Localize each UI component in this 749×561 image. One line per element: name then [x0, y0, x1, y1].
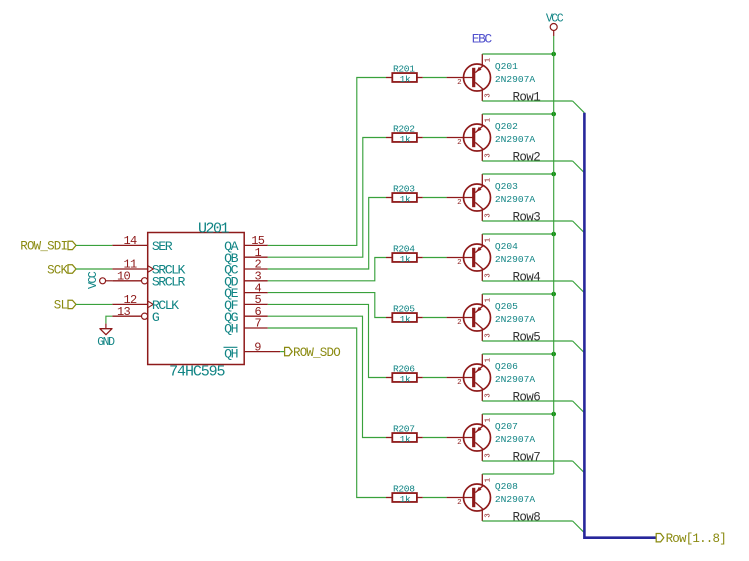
svg-text:1: 1 — [485, 477, 493, 482]
svg-text:2N2907A: 2N2907A — [495, 134, 536, 145]
wire R207 to Q207 base — [423, 437, 447, 439]
U201 pin 7 QH — [224, 317, 268, 337]
hierarchical label ROW_SDI — [20, 240, 76, 254]
U201 pin 10 SRCLR — [112, 270, 185, 290]
svg-text:Q202: Q202 — [495, 121, 518, 132]
hierarchical label ROW_SDO — [285, 346, 341, 360]
U201 pin 9 QH' (inverted serial out) — [224, 340, 281, 361]
svg-text:QH: QH — [224, 322, 237, 337]
svg-text:1: 1 — [485, 117, 493, 122]
svg-text:Row5: Row5 — [513, 330, 541, 344]
svg-text:2: 2 — [457, 499, 462, 507]
transistor Q207 2N2907A (PNP) — [447, 414, 536, 461]
wire R205 to Q205 base — [423, 317, 447, 319]
transistor Q201 2N2907A (PNP) — [447, 54, 536, 101]
svg-text:Q204: Q204 — [495, 241, 518, 252]
U201 pin 5 QF — [224, 293, 268, 313]
svg-text:GND: GND — [97, 336, 115, 349]
svg-text:2: 2 — [457, 79, 462, 87]
hierarchical label SL — [54, 299, 76, 313]
svg-text:Row1: Row1 — [513, 90, 541, 104]
svg-text:Row7: Row7 — [513, 450, 541, 464]
junction VCC rail / Q204 emitter — [551, 232, 556, 237]
wire VCC rail — [553, 36, 555, 474]
svg-text:14: 14 — [123, 234, 137, 248]
resistor R202 1k — [386, 123, 423, 145]
wire R206 to Q206 base — [423, 377, 447, 379]
resistor R207 1k — [386, 423, 423, 445]
wire SL to pin 12 — [76, 303, 112, 305]
svg-text:1: 1 — [485, 237, 493, 242]
bus entry Row8 — [573, 521, 585, 533]
junction VCC rail / Q203 emitter — [551, 172, 556, 177]
svg-text:2: 2 — [457, 379, 462, 387]
wire QD pin to R204 feed — [268, 258, 386, 281]
junction VCC rail / Q205 emitter — [551, 292, 556, 297]
svg-text:2N2907A: 2N2907A — [495, 254, 536, 265]
svg-text:3: 3 — [485, 93, 493, 98]
bus entry Row4 — [573, 281, 585, 293]
svg-text:Row4: Row4 — [513, 270, 541, 284]
svg-text:2N2907A: 2N2907A — [495, 74, 536, 85]
wire pin 9 to ROW_SDO — [280, 351, 285, 353]
bus entry Row5 — [573, 341, 585, 353]
svg-text:SL: SL — [54, 299, 68, 313]
svg-text:VCC: VCC — [87, 271, 100, 289]
bus entry Row2 — [573, 161, 585, 173]
svg-text:R208: R208 — [393, 483, 415, 494]
svg-text:ROW_SDI: ROW_SDI — [20, 240, 67, 254]
wire Q203 emitter to VCC rail — [482, 173, 553, 175]
svg-text:7: 7 — [254, 317, 261, 331]
svg-text:2N2907A: 2N2907A — [495, 314, 536, 325]
transistor Q205 2N2907A (PNP) — [447, 294, 536, 341]
wire Row7 net — [482, 460, 572, 462]
wire R202 to Q202 base — [423, 137, 447, 139]
svg-text:2: 2 — [457, 199, 462, 207]
svg-text:1k: 1k — [400, 194, 411, 205]
wire Q202 emitter to VCC rail — [482, 113, 553, 115]
U201 pin 2 QC — [224, 258, 268, 278]
svg-text:9: 9 — [254, 340, 261, 354]
svg-text:2: 2 — [457, 139, 462, 147]
svg-text:1k: 1k — [400, 314, 411, 325]
svg-text:R203: R203 — [393, 183, 415, 194]
power symbol VCC (top) — [546, 13, 564, 36]
U201 pin 14 SER — [112, 234, 172, 254]
transistor Q208 2N2907A (PNP) — [447, 474, 536, 521]
wire Q207 emitter to VCC rail — [482, 413, 553, 415]
wire Row8 net — [482, 520, 572, 522]
wire QF pin to R206 feed — [268, 304, 386, 377]
wire QB pin to R202 feed — [268, 138, 386, 258]
U201 pin 4 QE — [224, 281, 268, 301]
svg-text:2N2907A: 2N2907A — [495, 494, 536, 505]
wire R204 to Q204 base — [423, 257, 447, 259]
svg-text:3: 3 — [485, 393, 493, 398]
svg-text:3: 3 — [485, 453, 493, 458]
resistor R206 1k — [386, 363, 423, 385]
svg-text:Q206: Q206 — [495, 361, 518, 372]
svg-text:1: 1 — [485, 357, 493, 362]
wire R208 to Q208 base — [423, 497, 447, 499]
resistor R203 1k — [386, 183, 423, 205]
wire SCK to pin 11 — [76, 268, 112, 270]
svg-text:R202: R202 — [393, 123, 415, 134]
svg-text:1k: 1k — [400, 494, 411, 505]
svg-text:R204: R204 — [393, 243, 415, 254]
U201 pin 3 QD — [224, 270, 268, 290]
resistor R208 1k — [386, 483, 423, 505]
wire Q205 emitter to VCC rail — [482, 293, 553, 295]
resistor R205 1k — [386, 303, 423, 325]
wire QC pin to R203 feed — [268, 198, 386, 270]
svg-text:2N2907A: 2N2907A — [495, 194, 536, 205]
svg-text:74HC595: 74HC595 — [169, 364, 225, 381]
bus Row[1..8] — [584, 113, 656, 538]
resistor R204 1k — [386, 243, 423, 265]
U201 pin 6 QG — [224, 305, 268, 325]
svg-text:2N2907A: 2N2907A — [495, 434, 536, 445]
wire Row1 net — [482, 100, 572, 102]
U201 pin 11 SRCLK — [112, 258, 185, 278]
junction VCC rail / Q207 emitter — [551, 412, 556, 417]
svg-text:10: 10 — [117, 270, 131, 284]
U201 pin 15 QA — [224, 234, 268, 254]
wire ROW_SDI to pin 14 — [76, 244, 112, 246]
transistor Q206 2N2907A (PNP) — [447, 354, 536, 401]
resistor R201 1k — [386, 63, 423, 85]
wire QE pin to R205 feed — [268, 293, 386, 318]
svg-text:3: 3 — [485, 513, 493, 518]
svg-text:Q208: Q208 — [495, 481, 518, 492]
svg-text:Row2: Row2 — [513, 150, 541, 164]
transistor Q202 2N2907A (PNP) — [447, 114, 536, 161]
wire Q206 emitter to VCC rail — [482, 353, 553, 355]
wire Row5 net — [482, 340, 572, 342]
wire Row2 net — [482, 160, 572, 162]
svg-text:R206: R206 — [393, 363, 415, 374]
svg-text:1k: 1k — [400, 434, 411, 445]
junction VCC rail / Q206 emitter — [551, 352, 556, 357]
junction VCC rail / Q201 emitter — [551, 52, 556, 57]
svg-text:ROW_SDO: ROW_SDO — [293, 346, 340, 360]
wire Q204 emitter to VCC rail — [482, 233, 553, 235]
svg-text:Row8: Row8 — [513, 510, 541, 524]
svg-text:U201: U201 — [198, 220, 230, 237]
wire Q201 emitter to VCC rail — [482, 53, 553, 55]
svg-text:1k: 1k — [400, 134, 411, 145]
bus entry Row1 — [573, 101, 585, 113]
svg-text:SER: SER — [152, 239, 173, 254]
U201 pin 12 RCLK — [112, 293, 179, 313]
svg-text:R205: R205 — [393, 303, 415, 314]
svg-text:Q205: Q205 — [495, 301, 518, 312]
svg-text:Row[1..8]: Row[1..8] — [666, 532, 726, 546]
wire Row3 net — [482, 220, 572, 222]
bus entry Row7 — [573, 461, 585, 473]
svg-text:1: 1 — [485, 57, 493, 62]
U201 pin 13 G — [112, 305, 160, 325]
svg-text:1: 1 — [485, 297, 493, 302]
hierarchical label Row[1..8] — [656, 532, 726, 546]
transistor Q203 2N2907A (PNP) — [447, 174, 536, 221]
svg-text:1k: 1k — [400, 374, 411, 385]
svg-text:3: 3 — [485, 213, 493, 218]
svg-text:13: 13 — [117, 305, 131, 319]
svg-text:Q207: Q207 — [495, 421, 518, 432]
wire Row6 net — [482, 400, 572, 402]
power symbol VCC (at SRCLR) — [87, 271, 113, 289]
svg-text:2N2907A: 2N2907A — [495, 374, 536, 385]
svg-text:3: 3 — [485, 273, 493, 278]
wire QA pin to R201 feed — [268, 78, 386, 246]
svg-text:1: 1 — [485, 417, 493, 422]
svg-text:1k: 1k — [400, 74, 411, 85]
svg-text:Q201: Q201 — [495, 61, 518, 72]
svg-text:Row6: Row6 — [513, 390, 541, 404]
svg-text:QH: QH — [224, 346, 237, 361]
wire R201 to Q201 base — [423, 77, 447, 79]
ground GND — [97, 324, 115, 350]
svg-text:EBC: EBC — [472, 32, 493, 47]
wire R203 to Q203 base — [423, 197, 447, 199]
wire QH pin to R208 feed — [268, 328, 386, 498]
svg-text:R207: R207 — [393, 423, 415, 434]
svg-text:R201: R201 — [393, 63, 415, 74]
svg-text:2: 2 — [457, 259, 462, 267]
svg-text:3: 3 — [485, 153, 493, 158]
svg-text:SCK: SCK — [47, 263, 68, 277]
svg-text:Q203: Q203 — [495, 181, 518, 192]
wire QG pin to R207 feed — [268, 316, 386, 437]
svg-text:Row3: Row3 — [513, 210, 541, 224]
svg-text:1: 1 — [485, 177, 493, 182]
svg-text:3: 3 — [485, 333, 493, 338]
svg-text:1k: 1k — [400, 254, 411, 265]
svg-text:SRCLR: SRCLR — [152, 274, 186, 289]
transistor Q204 2N2907A (PNP) — [447, 234, 536, 281]
bus entry Row3 — [573, 221, 585, 233]
hierarchical label SCK — [47, 263, 76, 277]
junction VCC rail / Q202 emitter — [551, 112, 556, 117]
U201 pin 1 QB — [224, 246, 268, 266]
wire Q208 emitter to VCC rail — [482, 473, 553, 475]
bus entry Row6 — [573, 401, 585, 413]
svg-text:2: 2 — [457, 319, 462, 327]
IC U201 74HC595 shift register — [148, 220, 245, 380]
wire Row4 net — [482, 280, 572, 282]
svg-text:2: 2 — [457, 439, 462, 447]
wire pin 13 to ground — [106, 316, 112, 323]
